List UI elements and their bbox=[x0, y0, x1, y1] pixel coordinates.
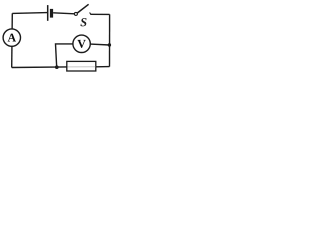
ammeter A bbox=[3, 29, 20, 46]
node junction bottom bbox=[55, 65, 59, 69]
resistor R bbox=[67, 61, 96, 71]
wire left side bbox=[11, 13, 14, 67]
wire voltmeter to right wire bbox=[90, 43, 109, 46]
wire top-left segment bbox=[12, 12, 47, 15]
voltmeter V bbox=[73, 35, 90, 52]
wire bottom-left segment bbox=[12, 66, 67, 69]
wire battery to switch bbox=[53, 13, 74, 14]
wire switch to top-right corner bbox=[90, 13, 109, 15]
wire right side bbox=[109, 14, 111, 66]
node junction right bbox=[108, 43, 111, 46]
switch S bbox=[74, 4, 90, 15]
wire bottom-right segment bbox=[96, 66, 110, 68]
battery cell bbox=[48, 5, 53, 21]
label S bbox=[80, 18, 86, 26]
wire voltmeter branch (left vertical + horizontal) bbox=[56, 44, 74, 67]
